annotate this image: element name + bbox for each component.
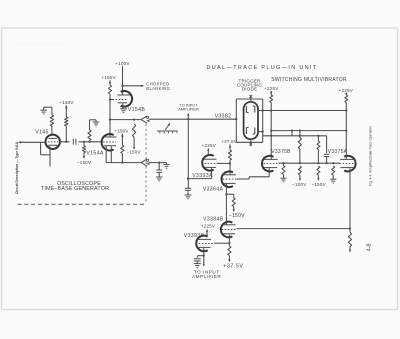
svg-text:V154A: V154A	[86, 151, 104, 157]
wire cross-coupling A	[271, 130, 346, 132]
resistor R2	[65, 117, 68, 126]
svg-text:+37.5V: +37.5V	[223, 264, 243, 270]
svg-text:V154B: V154B	[128, 107, 146, 113]
wire diode side lead lower	[258, 131, 263, 133]
wire V3393B plate to +225V	[206, 231, 208, 236]
wire A-B tie	[291, 131, 293, 136]
svg-text:4-8: 4-8	[367, 243, 373, 251]
resistor R6 to -150V	[133, 124, 136, 137]
wire plate bus upper	[263, 110, 347, 112]
resistor R16 to -100V	[298, 166, 301, 175]
wire grid return loop	[40, 142, 42, 155]
svg-text:AMPLIFIER: AMPLIFIER	[178, 107, 199, 112]
diode D2 plate lower	[245, 128, 247, 135]
tube V145	[46, 135, 60, 149]
wire V3375A cathode down	[349, 168, 351, 228]
svg-text:TIME–BASE GENERATOR: TIME–BASE GENERATOR	[41, 186, 109, 192]
svg-text:+225V: +225V	[202, 143, 216, 148]
wire V3382 top pin stub	[250, 95, 252, 102]
resistor R4 grid leak to ground	[88, 141, 90, 143]
wire V3382 frame bottom	[236, 141, 262, 143]
dashed box oscilloscope time-base	[18, 203, 147, 205]
resistor R7	[121, 145, 124, 154]
wire V3393B cathode node	[203, 248, 205, 256]
switch S1 wiper	[157, 130, 177, 132]
ground G4	[164, 163, 170, 165]
wire chopper to amplifier and diode	[149, 118, 236, 120]
svg-text:+100V: +100V	[115, 61, 129, 66]
wire cathode bus to V3384B grid	[237, 228, 351, 230]
diode D1 cathode upper	[254, 106, 256, 113]
ground G6	[185, 194, 192, 196]
ground G1 top-left	[44, 106, 52, 108]
svg-text:SWITCHING MULTIVIBRATOR: SWITCHING MULTIVIBRATOR	[271, 77, 347, 83]
svg-text:−150V: −150V	[77, 160, 91, 165]
svg-text:BLANKING: BLANKING	[146, 86, 170, 91]
capacitor C2 shunt	[158, 163, 160, 170]
resistor R3 to -150V	[83, 141, 85, 143]
svg-text:+37.5V: +37.5V	[221, 139, 237, 144]
wire V3382 frame right	[262, 99, 264, 142]
tube V154A	[102, 134, 114, 150]
svg-text:V3375B: V3375B	[271, 149, 291, 155]
wire V154A cathode to chop contact	[106, 162, 140, 164]
svg-text:DIODE: DIODE	[242, 87, 257, 92]
wire V3382 frame left	[235, 99, 237, 142]
wire V145 output	[60, 141, 102, 143]
wire V154A plate tap to chop contact	[110, 119, 140, 121]
tube V3393B	[196, 236, 207, 252]
resistor R19 off page	[348, 233, 351, 247]
resistor R14 plate load V3375A	[345, 95, 348, 103]
svg-text:AMPLIFIER: AMPLIFIER	[192, 274, 221, 279]
tube V3375B	[262, 156, 273, 172]
resistor R15 to ground	[282, 166, 285, 175]
tube V3375A	[344, 156, 355, 172]
resistor R12 coupling	[298, 138, 301, 150]
ground G2	[93, 121, 100, 123]
diode D2 cathode lower	[254, 128, 256, 135]
svg-text:V3384B: V3384B	[203, 216, 224, 222]
wire V3382 frame top	[236, 98, 262, 100]
svg-text:−100V: −100V	[292, 182, 306, 187]
capacitor C5 coupling	[326, 136, 328, 154]
svg-text:−150V: −150V	[312, 182, 326, 187]
ground G7	[194, 263, 201, 265]
svg-text:V3393B: V3393B	[184, 233, 205, 239]
ground G5	[156, 176, 163, 178]
svg-text:+225V: +225V	[201, 223, 215, 228]
wire input to V145 grid	[21, 141, 46, 143]
ghost bleed-through smudge	[17, 41, 68, 46]
resistor R13 coupling	[317, 141, 320, 150]
wire V3393A grid to V3364A plate	[217, 162, 230, 164]
svg-text:−150V: −150V	[126, 150, 140, 155]
tube V3384B	[221, 222, 232, 238]
switch linkage dashed	[145, 124, 147, 204]
ground G9	[330, 178, 336, 180]
svg-text:V3364A: V3364A	[203, 186, 224, 192]
resistor R1 plate load V145	[51, 107, 53, 115]
ground G8	[280, 177, 286, 179]
ground G3 V154B cathode	[120, 108, 127, 110]
wire grid bus multivibrator	[279, 162, 341, 164]
svg-text:V3382: V3382	[215, 114, 232, 120]
wire V3364A grid to V3375B cathode	[237, 178, 250, 180]
svg-text:+150V: +150V	[114, 128, 128, 133]
wire V3364A cathode rail	[225, 184, 227, 225]
svg-text:DUAL—TRACE PLUG—IN UNIT: DUAL—TRACE PLUG—IN UNIT	[206, 65, 317, 71]
wire chopped blanking arrow	[123, 85, 142, 87]
svg-text:−150V: −150V	[229, 213, 245, 219]
tube V3382 envelope	[244, 102, 258, 139]
svg-text:+225V: +225V	[264, 86, 278, 91]
wire V3393A plate to +225V	[207, 150, 209, 155]
svg-text:+225V: +225V	[339, 88, 353, 93]
svg-text:Fig. 4-4. Simplified Dual-Trac: Fig. 4-4. Simplified Dual-Trace Operatio…	[369, 126, 373, 186]
wire V145 cathode lead	[49, 147, 51, 167]
resistor R17 to -150V	[317, 166, 320, 175]
wire lower contact to ground	[149, 162, 166, 164]
rail cathode line down to V3393A	[187, 119, 189, 188]
svg-text:V3375A: V3375A	[328, 149, 348, 155]
svg-text:+150V: +150V	[101, 75, 115, 80]
tube V3364A	[222, 171, 233, 187]
tube V3393A	[202, 155, 213, 171]
wire V3384B cathode to V3393B grid	[228, 234, 230, 243]
wire cross-coupling B	[263, 135, 327, 137]
svg-text:V3393A: V3393A	[192, 173, 213, 179]
wire to input amplifier lower	[203, 256, 205, 264]
switch S1 upper contact	[141, 116, 147, 123]
wire V3375B cathode	[268, 168, 270, 171]
switch S1 lower contact	[141, 159, 147, 166]
diode D1 plate upper	[245, 106, 247, 113]
resistor R9 to -150V	[226, 193, 233, 195]
svg-text:+150V: +150V	[59, 100, 73, 105]
wire to input amplifier stub	[187, 115, 189, 119]
tube V154B	[121, 91, 132, 107]
wire V3393A cathode	[211, 168, 213, 179]
svg-text:Circuit Description — Type 541: Circuit Description — Type 541A	[15, 141, 19, 194]
svg-text:NOTES ON OPERATION: NOTES ON OPERATION	[17, 41, 68, 46]
resistor R11 plate load V3375B	[270, 95, 273, 103]
wire V3382 bottom pin stub	[250, 139, 252, 146]
resistor R18 to ground	[332, 166, 335, 175]
capacitor C1 coupling	[70, 139, 79, 145]
capacitor C4	[196, 256, 198, 258]
capacitor C3 bypass	[185, 187, 191, 189]
resistor R10 to +37.5V	[228, 246, 231, 256]
svg-text:V145: V145	[35, 130, 49, 136]
wire diode side lead upper	[258, 110, 263, 112]
resistor R5	[108, 85, 111, 94]
